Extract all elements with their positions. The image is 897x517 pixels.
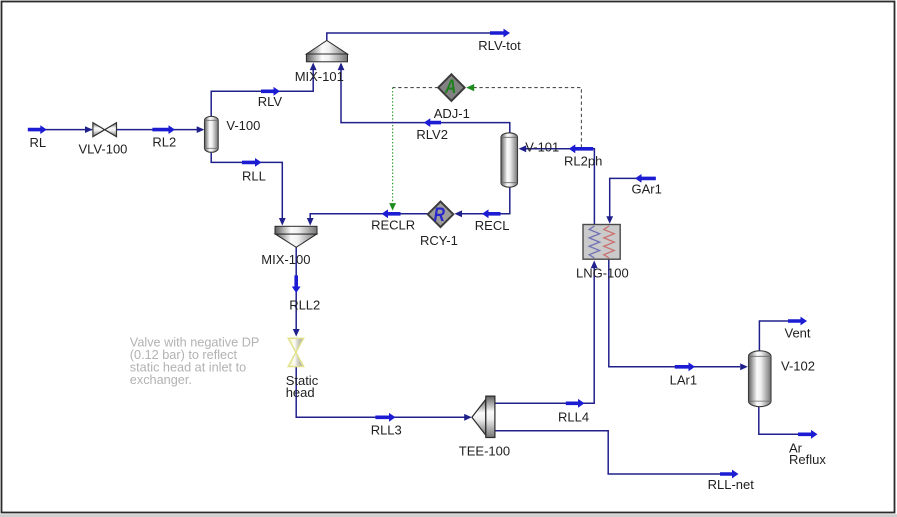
svg-text:RLL3: RLL3 [371, 423, 402, 438]
svg-text:RLL2: RLL2 [289, 298, 320, 313]
stream RL2 arrow [152, 125, 175, 134]
svg-text:V-101: V-101 [525, 140, 559, 155]
wire RL2ph : LNG-100 top to V-101 [520, 149, 594, 231]
svg-text:TEE-100: TEE-100 [459, 444, 510, 459]
svg-text:A: A [444, 77, 456, 98]
stream GAr1 arrow [635, 174, 656, 183]
wire VLV-100 to V-100 (RL2) [117, 129, 204, 131]
wire RLL-net : TEE-100 bottom branch [495, 431, 723, 474]
tee TEE-100 [472, 396, 495, 437]
stream RECL arrow [482, 209, 501, 218]
arrowhead RLV2 into MIX-101 [338, 63, 345, 71]
svg-text:MIX-100: MIX-100 [261, 252, 310, 267]
arrowhead RLV into MIX-101 [310, 63, 317, 71]
wire Vent : V-102 top outlet [759, 321, 789, 352]
wire GAr1 feed into LNG-100 [610, 178, 656, 217]
svg-text:V-100: V-100 [226, 118, 260, 133]
svg-text:LNG-100: LNG-100 [576, 265, 629, 280]
arrowhead RECL into RCY-1 [454, 210, 462, 217]
svg-text:exchanger.: exchanger. [130, 373, 192, 387]
wire Ar Reflux : V-102 bottom outlet [759, 405, 799, 434]
stream RLL-net arrow [720, 470, 739, 479]
ADJ-1 target dashed connection from stream RL2ph [472, 88, 581, 148]
arrowhead RLL4 into LNG-100 [591, 261, 598, 269]
arrowhead into V-100 [197, 126, 205, 133]
svg-text:GAr1: GAr1 [632, 181, 662, 196]
green arrowhead onto RECLR [389, 203, 396, 211]
stream RL arrow [28, 125, 47, 134]
svg-text:RL2: RL2 [152, 135, 176, 150]
svg-text:RLV: RLV [258, 94, 283, 109]
arrowhead RL2ph into V-101 [519, 145, 527, 152]
stream RLV arrow [261, 87, 280, 96]
svg-text:RLV2: RLV2 [416, 127, 448, 142]
arrowhead into V-102 [740, 363, 748, 370]
wire LAr1 : LNG-100 bottom to V-102 [609, 259, 740, 367]
arrowhead into VLV-100 [85, 126, 93, 133]
stream RLV2 arrow [424, 118, 441, 127]
wire RL feed to VLV-100 [44, 129, 92, 131]
adjust block ADJ-1 [438, 74, 464, 101]
wire RLV-tot : MIX-101 top outlet [327, 33, 492, 43]
svg-text:RECL: RECL [475, 218, 510, 233]
ADJ-1 left dashed segment [393, 87, 439, 89]
wire RLL4 : TEE-100 to LNG-100 [495, 262, 595, 403]
wire RLV : V-100 top to MIX-101 [211, 64, 313, 118]
svg-text:RLL-net: RLL-net [708, 477, 755, 492]
svg-text:RL: RL [30, 135, 47, 150]
valve Static head [288, 338, 303, 366]
wire RLL3 : Static head valve to TEE-100 [296, 366, 465, 417]
heat exchanger LNG-100 [583, 225, 620, 260]
svg-text:ADJ-1: ADJ-1 [434, 106, 470, 121]
mixer MIX-100 [275, 226, 317, 247]
stream RLL2 arrow [292, 275, 301, 293]
svg-text:V-102: V-102 [781, 359, 815, 374]
stream LAr1 arrow [675, 362, 695, 371]
svg-text:head: head [286, 385, 315, 400]
wire RECL : V-101 bottom to RCY-1 [456, 186, 510, 214]
svg-text:RLV-tot: RLV-tot [478, 38, 521, 53]
stream RLL arrow [242, 158, 262, 167]
stream RLL4 arrow [566, 399, 585, 408]
svg-text:MIX-101: MIX-101 [295, 69, 344, 84]
recycle block RCY-1 [428, 202, 454, 228]
wire RLL2 : MIX-100 to Static head valve [295, 246, 297, 331]
svg-text:Reflux: Reflux [789, 452, 826, 467]
svg-text:Vent: Vent [785, 326, 811, 341]
wire RECLR : RCY-1 to MIX-100 [310, 214, 429, 219]
stream RECLR arrow [382, 209, 401, 218]
svg-text:RCY-1: RCY-1 [420, 233, 458, 248]
svg-text:RLL: RLL [242, 168, 266, 183]
arrowhead RLL into MIX-100 [279, 218, 286, 226]
stream Vent arrow [788, 317, 807, 326]
svg-text:RL2ph: RL2ph [564, 154, 602, 169]
stream RL2ph arrow [569, 144, 593, 153]
svg-text:RLL4: RLL4 [558, 409, 589, 424]
arrowhead into TEE-100 [464, 414, 472, 421]
svg-text:R: R [434, 205, 446, 226]
green arrowhead into ADJ-1 [466, 84, 474, 91]
separator V-100 [205, 116, 219, 152]
svg-text:LAr1: LAr1 [670, 373, 697, 388]
wire RLV2 : V-101 top to MIX-101 [341, 64, 510, 134]
arrowhead GAr1 into LNG-100 [606, 216, 613, 224]
wire RLL : V-100 bottom to MIX-100 [211, 151, 282, 219]
arrowhead RECLR into MIX-100 [307, 218, 314, 226]
stream Ar Reflux arrow [798, 430, 818, 439]
stream RLL3 arrow [375, 413, 395, 422]
ADJ-1 green dotted adjust connection to stream RECLR [392, 88, 394, 203]
valve VLV-100 [93, 123, 117, 137]
separator V-101 [501, 133, 518, 187]
stream RLV-tot arrow [490, 29, 510, 38]
arrowhead into Static head valve [293, 329, 300, 337]
mixer MIX-101 [306, 41, 347, 62]
separator V-102 [749, 351, 772, 407]
svg-text:RECLR: RECLR [371, 218, 415, 233]
svg-text:VLV-100: VLV-100 [79, 141, 128, 156]
